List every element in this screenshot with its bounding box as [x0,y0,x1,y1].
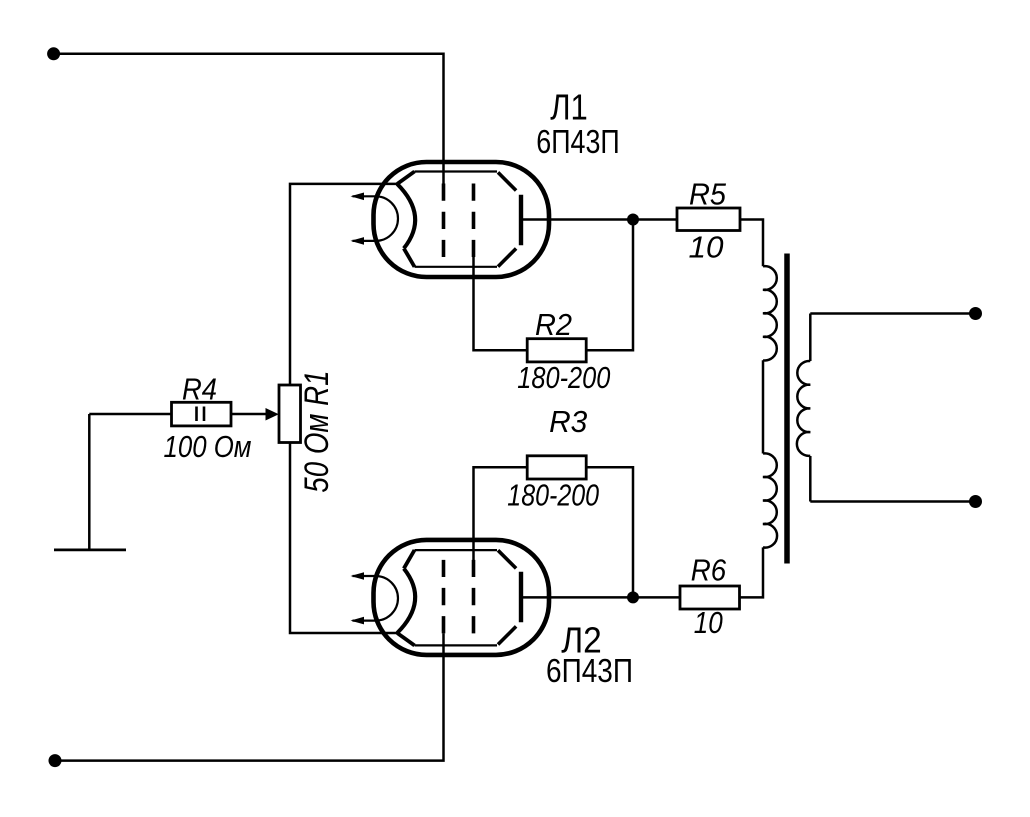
svg-text:R6: R6 [691,553,727,588]
svg-text:100 Ом: 100 Ом [164,429,252,464]
svg-text:R5: R5 [689,177,727,212]
svg-text:180-200: 180-200 [507,478,599,513]
svg-text:R3: R3 [549,404,587,439]
svg-text:50 Ом R1: 50 Ом R1 [298,371,336,493]
svg-text:180-200: 180-200 [517,360,610,395]
svg-text:10: 10 [694,605,723,640]
svg-text:Л1: Л1 [550,87,588,128]
svg-text:10: 10 [689,229,724,264]
svg-text:R2: R2 [535,307,572,342]
svg-text:6П43П: 6П43П [536,123,619,160]
svg-text:6П43П: 6П43П [546,652,633,689]
svg-text:R4: R4 [182,372,217,407]
